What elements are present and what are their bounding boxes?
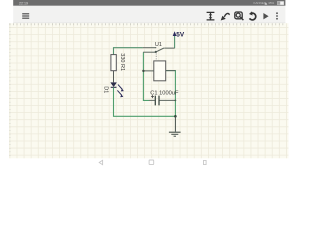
android navigation bar: [99, 160, 206, 165]
switch contact dot: [155, 47, 156, 48]
svg-text:22:19: 22:19: [19, 1, 28, 5]
switch pivot dot: [155, 51, 157, 53]
wire: left vertical net (switch to coil to C1): [143, 52, 149, 100]
toolbar: [13, 6, 285, 23]
switch blade: [156, 48, 175, 52]
status bar: [13, 0, 285, 6]
back button: [99, 160, 102, 164]
relay actuation dashed link: [155, 53, 157, 60]
capacitor C1: [149, 90, 179, 105]
wire: top pin into relay switch NC: [143, 47, 156, 49]
coil pins: [144, 70, 176, 72]
LED emission arrows: [117, 85, 122, 96]
tool icon: wire pen: [221, 13, 229, 20]
junction: C1 right lead on vertical net: [175, 100, 177, 102]
schematic sheet with grid: [9, 23, 289, 158]
relay U1: [144, 42, 176, 81]
svg-text:U1: U1: [155, 42, 162, 48]
home button: [149, 160, 154, 165]
wire: bottom LED corner across to ground node: [114, 110, 176, 116]
svg-text:5V: 5V: [176, 31, 185, 38]
ground symbol: [169, 116, 181, 136]
power +5V: [173, 31, 185, 48]
svg-text:D1: D1: [102, 86, 108, 93]
svg-text:330 R1: 330 R1: [119, 53, 125, 71]
tool icon: align/probe: [207, 12, 215, 20]
tool icon: zoom fit: [235, 12, 244, 20]
wire: right vertical net (coil right to ground): [166, 71, 175, 117]
relay coil box: [154, 61, 166, 81]
wire: R1 branch top corner to switch: [114, 48, 143, 55]
svg-text:C1 1000uF: C1 1000uF: [150, 90, 179, 96]
tool icon: undo: [249, 11, 256, 20]
hamburger menu icon: [22, 13, 29, 19]
resistor R1: [111, 53, 125, 82]
LED D1: [102, 83, 124, 110]
tool icon: run/play: [263, 13, 268, 19]
junction: ground node: [174, 115, 177, 118]
wire: switch pivot lead: [143, 51, 155, 53]
recents button: [204, 160, 207, 164]
junction: coil left pin on vertical net: [142, 70, 144, 72]
svg-text:35%: 35%: [268, 1, 274, 5]
tool icon: overflow menu: [276, 12, 278, 19]
